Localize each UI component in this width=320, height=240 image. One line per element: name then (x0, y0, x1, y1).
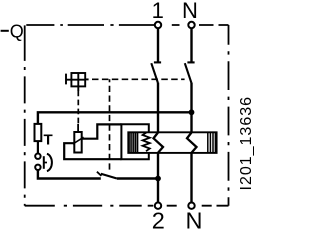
CT core hatching right (208, 132, 216, 153)
secondary winding (143, 132, 150, 151)
enclosure frame top (26, 24, 228, 26)
CT core (128, 132, 216, 153)
terminal N top (188, 22, 194, 28)
neutral winding (187, 133, 197, 153)
phase winding (154, 133, 164, 153)
junction phase-test (155, 176, 161, 182)
secondary winding box (121, 124, 148, 159)
contact neutral pole (185, 62, 195, 82)
auxiliary test contact (97, 172, 117, 179)
secondary wire upper (82, 124, 122, 138)
svg-text:2: 2 (152, 207, 165, 233)
CT core hatching left (130, 132, 138, 153)
enclosure frame right (228, 25, 230, 206)
svg-text:Q: Q (10, 21, 24, 41)
contact phase pole (151, 62, 161, 82)
test button contact upper (35, 154, 40, 159)
svg-text:I201_13636: I201_13636 (238, 96, 255, 191)
junction neutral-test (189, 109, 195, 115)
svg-text:1: 1 (152, 0, 164, 23)
mechanical linkage to test contact (109, 79, 111, 171)
wire neutral middle (190, 83, 192, 133)
test button contact stub upper (37, 141, 39, 153)
svg-text:N: N (186, 207, 203, 233)
svg-text:T: T (44, 132, 53, 149)
secondary wire lower (64, 143, 121, 159)
wire neutral lower (190, 153, 192, 203)
test button contact lower (35, 165, 40, 170)
wire phase middle (157, 83, 159, 133)
enclosure frame bottom (25, 205, 229, 207)
test wire lower left (38, 170, 101, 179)
mechanism box (66, 73, 89, 91)
device designator -Q (1, 21, 24, 41)
test button actuator (44, 154, 52, 171)
trip coil (73, 124, 84, 153)
test wire upper (38, 112, 192, 124)
wire phase upper (157, 28, 159, 62)
mechanical linkage to trip coil (77, 91, 79, 124)
resistor (35, 124, 42, 141)
terminal 1 (155, 22, 161, 28)
mechanical linkage horizontal (89, 78, 185, 80)
svg-text:N: N (182, 0, 198, 23)
wire phase lower (157, 153, 159, 203)
wire neutral upper (190, 28, 192, 62)
test wire lower right (117, 177, 158, 179)
terminal 2 (155, 203, 161, 209)
terminal N bottom (188, 203, 194, 209)
enclosure frame left (24, 25, 26, 205)
